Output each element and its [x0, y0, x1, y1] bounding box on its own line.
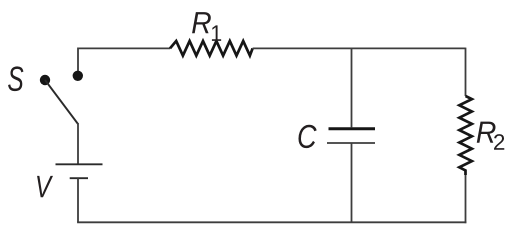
resistor R2 — [459, 96, 472, 175]
wire: capacitor branch lower — [351, 143, 353, 222]
wire: switch to battery — [77, 123, 79, 164]
resistor R1 — [170, 41, 253, 56]
wire: right branch upper — [465, 48, 467, 96]
wire: top-left drop to switch contact — [77, 48, 79, 73]
label S — [8, 66, 23, 91]
label V — [37, 176, 53, 197]
switch S contact node (right dot) — [73, 71, 83, 81]
capacitor C top plate — [329, 127, 376, 130]
wire: bottom rail — [77, 221, 466, 223]
capacitor C bottom plate — [327, 142, 375, 144]
wire: battery to bottom rail — [77, 178, 79, 222]
label R2 — [477, 122, 496, 143]
label C — [298, 125, 316, 148]
wire: top rail left segment — [78, 47, 170, 49]
label R1 — [192, 12, 211, 33]
switch S pole node (left dot) — [40, 75, 50, 85]
battery V positive plate (long) — [56, 163, 103, 165]
wire: capacitor branch upper — [351, 48, 353, 127]
wire: top rail right segment — [253, 47, 466, 49]
switch S lever arm — [45, 80, 78, 124]
wire: right branch lower — [465, 175, 467, 223]
battery V negative plate (short) — [70, 177, 88, 179]
